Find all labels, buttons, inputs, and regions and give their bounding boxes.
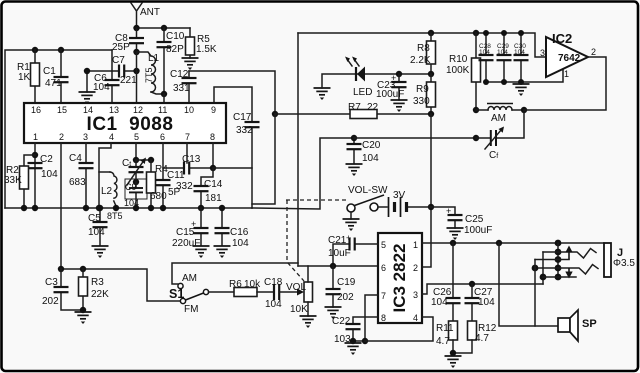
svg-text:10K: 10K <box>290 304 308 315</box>
svg-text:5: 5 <box>381 240 386 250</box>
jack node row252 <box>555 249 562 256</box>
svg-text:C9: C9 <box>125 182 137 192</box>
svg-text:C20: C20 <box>362 140 381 151</box>
svg-text:R10: R10 <box>449 54 468 65</box>
node C13 right <box>210 165 216 171</box>
svg-text:25P: 25P <box>112 42 130 53</box>
svg-text:VOL: VOL <box>286 282 306 293</box>
wire bus y208 <box>5 207 252 209</box>
node C1 top <box>58 47 64 53</box>
svg-text:3V: 3V <box>393 190 406 201</box>
svg-text:16: 16 <box>31 105 41 115</box>
capacitor C9 104 <box>124 182 143 208</box>
svg-text:11: 11 <box>158 105 167 115</box>
node pin7 bottom <box>362 338 368 344</box>
capacitor C30 104 <box>514 33 529 82</box>
node C9 bus <box>133 205 139 211</box>
resistor R10 100K <box>446 33 481 110</box>
node C22 bottom <box>350 338 356 344</box>
wire pin12 <box>136 52 138 103</box>
svg-text:100K: 100K <box>446 65 470 76</box>
node C4 bus <box>83 205 89 211</box>
svg-text:104: 104 <box>478 297 495 308</box>
IC3 2822 <box>378 233 422 323</box>
svg-text:202: 202 <box>337 292 354 303</box>
node C30 top <box>518 30 524 36</box>
capacitor C21 10uF <box>328 233 378 266</box>
svg-text:9: 9 <box>211 105 216 115</box>
svg-text:C18: C18 <box>264 277 283 288</box>
wire top rail y33 <box>298 33 546 57</box>
svg-text:R6: R6 <box>229 279 242 290</box>
ground C22 <box>345 343 362 355</box>
svg-text:L1: L1 <box>148 53 160 64</box>
wire pin3 route <box>422 284 543 294</box>
LED <box>345 57 372 99</box>
svg-text:22K: 22K <box>91 289 109 300</box>
capacitor C15 220uF <box>172 208 209 249</box>
node AM coil left <box>473 107 479 113</box>
svg-text:4.7: 4.7 <box>475 333 489 344</box>
capacitor C12 331 <box>170 69 197 103</box>
svg-text:FM: FM <box>184 304 198 315</box>
switch S1 AM/FM <box>169 273 209 315</box>
capacitor C19 202 <box>326 266 356 307</box>
svg-text:1K: 1K <box>18 72 31 83</box>
svg-text:C17: C17 <box>233 112 252 123</box>
svg-text:C13: C13 <box>182 154 201 165</box>
svg-text:2: 2 <box>413 263 418 273</box>
node C21/pin6 <box>330 263 336 269</box>
wire pin8 riser <box>212 143 214 168</box>
wire AM riser x298 <box>297 33 299 266</box>
svg-text:4: 4 <box>109 132 114 142</box>
svg-text:C25: C25 <box>465 214 484 225</box>
capacitor C6 104 <box>93 50 120 103</box>
switch VOL-SW <box>347 185 388 219</box>
svg-text:R9: R9 <box>416 84 429 95</box>
svg-text:471: 471 <box>45 78 62 89</box>
node Cf left <box>473 135 479 141</box>
ground C16 <box>214 246 231 258</box>
svg-text:4.7: 4.7 <box>436 336 450 347</box>
node C3/R3 gnd <box>80 307 86 313</box>
svg-text:C21: C21 <box>328 235 347 246</box>
node C14 bus <box>198 205 204 211</box>
svg-text:C4: C4 <box>69 153 82 164</box>
capacitor C17 332 <box>233 112 260 208</box>
svg-text:IC2: IC2 <box>552 31 572 46</box>
node C28 top <box>483 30 489 36</box>
svg-text:104: 104 <box>497 49 508 56</box>
wire pin6 to C13 <box>163 167 184 169</box>
svg-text:8: 8 <box>210 132 215 142</box>
svg-text:104: 104 <box>362 153 379 164</box>
wire pin4 riser <box>99 143 111 208</box>
svg-text:C7: C7 <box>112 55 125 66</box>
ground C20 <box>346 164 363 176</box>
svg-text:100uF: 100uF <box>464 225 492 236</box>
node C23 top <box>396 71 402 77</box>
svg-text:202: 202 <box>42 296 59 307</box>
resistor R12 4.7 <box>453 321 497 353</box>
node antenna <box>133 25 139 31</box>
resistor R9 330 <box>413 74 436 114</box>
svg-text:10uF: 10uF <box>328 248 351 259</box>
svg-text:10: 10 <box>184 105 194 115</box>
capacitor C2 104 <box>28 154 59 180</box>
ground C5 <box>92 246 109 258</box>
svg-text:C1: C1 <box>43 66 56 77</box>
resistor R3 22K <box>79 269 110 311</box>
svg-text:15: 15 <box>57 105 67 115</box>
wire pin1 rail y243 <box>422 242 604 244</box>
svg-text:22: 22 <box>367 102 379 113</box>
svg-text:5: 5 <box>134 132 139 142</box>
ground C3/R3 <box>75 312 92 324</box>
svg-text:R11: R11 <box>436 323 454 334</box>
svg-text:8: 8 <box>381 313 386 323</box>
ground R11 <box>445 356 462 368</box>
node R1 top <box>32 47 38 53</box>
wire pin9 AFC to C20 <box>252 114 275 204</box>
capacitor C11 5P <box>156 170 194 208</box>
wire jack col x543 <box>542 252 544 284</box>
wire jack column <box>557 243 559 277</box>
svg-text:181: 181 <box>205 193 222 204</box>
inductor AM coil <box>476 104 524 125</box>
wire cap bottom rail <box>486 69 563 82</box>
svg-text:C3: C3 <box>45 277 58 288</box>
node R8 top <box>428 30 434 36</box>
node C28 bottom <box>483 79 489 85</box>
capacitor C27 104 <box>465 284 496 321</box>
variable capacitor Cf <box>476 110 524 161</box>
node pin11 <box>161 91 167 97</box>
wire R7 rail <box>275 113 432 115</box>
node R10 top <box>473 30 479 36</box>
node pin4 bus <box>96 205 102 211</box>
capacitor C7 221 <box>112 55 137 86</box>
node C27 top <box>469 281 475 287</box>
wiper arrow into VOL <box>279 289 304 296</box>
svg-text:5P: 5P <box>168 187 181 198</box>
node C30 bottom <box>518 79 524 85</box>
wire pin9 to C17 <box>214 87 252 121</box>
jack node x543 row277 <box>540 274 547 281</box>
speaker SP <box>558 310 597 341</box>
trimmer box around C9 <box>125 179 147 199</box>
svg-text:SP: SP <box>582 318 597 330</box>
dashed mechanical link <box>286 200 347 281</box>
node C26 top <box>450 240 456 246</box>
svg-text:2: 2 <box>59 132 64 142</box>
capacitor C13 <box>182 154 213 175</box>
wire jack row259 <box>535 259 569 261</box>
ground C19 <box>325 307 342 319</box>
svg-text:+: + <box>346 233 351 243</box>
wire pin2 riser <box>60 143 62 269</box>
svg-text:AM: AM <box>491 113 506 124</box>
svg-text:IC3 2822: IC3 2822 <box>390 244 409 313</box>
svg-text:6: 6 <box>160 132 165 142</box>
svg-text:1.5K: 1.5K <box>196 44 217 55</box>
svg-text:82P: 82P <box>166 44 184 55</box>
capacitor C22 103 <box>332 316 378 345</box>
ground VOL <box>300 316 317 328</box>
resistor R1 1K <box>17 50 40 103</box>
node pin1/C2 <box>32 152 38 158</box>
wire pin6 rail <box>298 265 378 267</box>
svg-text:+: + <box>446 206 451 216</box>
svg-text:680: 680 <box>150 191 167 202</box>
wire pin7 riser <box>186 143 188 163</box>
svg-text:R3: R3 <box>91 277 104 288</box>
svg-text:104: 104 <box>41 169 58 180</box>
wire IC2 pin2 route <box>524 57 606 110</box>
svg-text:C14: C14 <box>204 179 223 190</box>
capacitor C8 25P <box>112 28 144 53</box>
svg-text:LED: LED <box>353 87 372 98</box>
svg-text:C12: C12 <box>170 69 189 80</box>
svg-text:R7: R7 <box>348 102 361 113</box>
resistor R7 22 <box>348 102 379 119</box>
capacitor C5 104 <box>88 208 108 245</box>
svg-text:33K: 33K <box>4 175 22 186</box>
node pin5 <box>133 157 139 163</box>
svg-text:104: 104 <box>265 299 282 310</box>
svg-text:332: 332 <box>236 125 253 136</box>
wire battery column <box>422 114 431 267</box>
svg-text:2.2K: 2.2K <box>410 55 431 66</box>
jack node main <box>555 240 562 247</box>
node pin1 bus <box>32 205 38 211</box>
svg-text:3: 3 <box>540 48 545 58</box>
svg-text:104: 104 <box>88 227 105 238</box>
capacitor C28 104 <box>479 33 494 82</box>
ground IC2 <box>513 84 530 96</box>
variable capacitor Ct <box>122 158 146 186</box>
node R9 bottom / R7 right <box>428 111 434 117</box>
node speaker riser top <box>496 240 502 246</box>
svg-text:C16: C16 <box>230 227 249 238</box>
resistor R11 4.7 <box>436 321 458 353</box>
svg-text:3: 3 <box>83 132 88 142</box>
wire speaker riser <box>499 243 558 326</box>
node C10 top <box>161 25 167 31</box>
wire pin5 riser <box>135 143 137 160</box>
svg-text:14: 14 <box>83 105 93 115</box>
wire C13 net to C17 column <box>213 167 252 169</box>
svg-text:Φ3.5: Φ3.5 <box>613 258 635 269</box>
svg-text:VOL-SW: VOL-SW <box>348 185 388 196</box>
svg-text:ANT: ANT <box>140 7 160 18</box>
inductor L1 7T5 <box>137 52 165 94</box>
capacitor C20 104 <box>347 138 381 164</box>
ground VOL-SW <box>343 219 360 231</box>
capacitor C3 202 <box>42 269 83 310</box>
wire jack row252 upper contact <box>543 249 596 259</box>
svg-text:R8: R8 <box>417 43 430 54</box>
resistor R5 1.5K <box>186 28 217 58</box>
svg-text:12: 12 <box>133 105 143 115</box>
svg-text:2: 2 <box>591 47 596 57</box>
svg-text:683: 683 <box>69 177 86 188</box>
svg-text:100uF: 100uF <box>376 89 404 100</box>
svg-text:3: 3 <box>413 290 418 300</box>
svg-text:7T5: 7T5 <box>144 67 154 83</box>
jack down arrow <box>565 268 572 279</box>
jack up arrow <box>565 246 572 260</box>
wire top rail y50 <box>5 50 112 208</box>
svg-text:104: 104 <box>93 82 110 93</box>
wire pin1 riser <box>34 143 36 208</box>
svg-text:10k: 10k <box>244 279 261 290</box>
node battery junction <box>428 204 434 210</box>
wire antenna rail y28 <box>137 27 191 29</box>
IC1 9088 <box>24 103 226 143</box>
capacitor C18 104 <box>257 277 283 310</box>
svg-text:C10: C10 <box>166 31 185 42</box>
wire C12 to R7 rail <box>189 71 275 114</box>
svg-text:8T5: 8T5 <box>107 211 123 221</box>
svg-text:C11: C11 <box>167 170 185 181</box>
ground C25 <box>447 228 464 240</box>
svg-text:C22: C22 <box>332 316 351 327</box>
wire C3/R3 rail <box>61 269 180 301</box>
capacitor C10 82P <box>157 28 185 94</box>
svg-text:C5: C5 <box>88 213 101 224</box>
node C29 bottom <box>501 79 507 85</box>
svg-text:AM: AM <box>182 273 197 284</box>
antenna ANT <box>131 3 160 28</box>
wire C17 bottom to C20 <box>252 138 354 209</box>
node C29 top <box>501 30 507 36</box>
wire S1 pole to R6 <box>209 291 235 293</box>
node R8/R9/LED <box>428 71 434 77</box>
jack node row277 <box>555 274 562 281</box>
capacitor C1 471 <box>43 50 69 103</box>
node Ct bottom <box>133 179 139 185</box>
wire AM contact riser <box>172 263 298 284</box>
node R2 bus <box>21 205 27 211</box>
potentiometer VOL 10K <box>286 266 313 316</box>
ground R5 <box>182 58 199 70</box>
svg-text:331: 331 <box>173 83 190 94</box>
wire pin6 riser <box>162 143 164 180</box>
svg-text:1: 1 <box>564 69 569 79</box>
inductor L2 8T5 <box>99 172 123 221</box>
jack node row268 <box>555 265 562 272</box>
svg-text:C19: C19 <box>337 277 356 288</box>
svg-text:4: 4 <box>413 313 418 323</box>
capacitor C29 104 <box>497 33 512 82</box>
node R3 top <box>80 266 86 272</box>
resistor R2 33K <box>4 155 35 208</box>
wire pin4 route <box>365 317 433 341</box>
svg-text:L2: L2 <box>101 186 113 197</box>
svg-text:104: 104 <box>479 49 490 56</box>
wire pin5 to R4 <box>136 159 151 161</box>
svg-text:C15: C15 <box>176 227 195 238</box>
capacitor C26 104 <box>431 243 461 321</box>
node pin2/C3 <box>58 266 64 272</box>
svg-text:6: 6 <box>381 263 386 273</box>
wire jack row277 <box>543 276 576 278</box>
svg-text:1: 1 <box>413 240 418 250</box>
resistor R4 680 <box>147 160 169 208</box>
svg-text:104: 104 <box>232 238 249 249</box>
wire LED row <box>322 74 432 88</box>
wire pin7 <box>353 295 378 341</box>
ground pin14 <box>79 92 96 104</box>
svg-text:220uF: 220uF <box>172 238 200 249</box>
node C20 <box>351 135 357 141</box>
node C7 right / pin12 <box>133 68 139 74</box>
node R11 bottom <box>450 350 456 356</box>
resistor R8 2.2K <box>410 33 436 74</box>
capacitor C23 100uF <box>376 73 407 100</box>
jack node row259 <box>555 256 562 263</box>
svg-text:330: 330 <box>413 96 430 107</box>
wire C20 rail to Cf <box>354 137 476 139</box>
ground C23 <box>391 100 408 112</box>
node C8 bottom / L1 top <box>133 49 139 55</box>
node C11 bus <box>160 205 166 211</box>
svg-text:13: 13 <box>109 105 119 115</box>
capacitor C16 104 <box>215 208 250 249</box>
capacitor C14 181 <box>194 168 223 208</box>
ground C15 <box>193 246 210 258</box>
node gnd branch <box>84 68 90 74</box>
svg-text:104: 104 <box>431 297 448 308</box>
node AM coil right <box>521 107 527 113</box>
battery 3V <box>378 190 431 217</box>
svg-text:C2: C2 <box>40 154 53 165</box>
resistor R6 10k <box>229 279 261 297</box>
node C5 bus <box>97 205 103 211</box>
jack J sleeve bar <box>604 243 635 277</box>
svg-text:221: 221 <box>120 75 137 86</box>
ground LED <box>314 88 331 100</box>
capacitor C4 683 <box>69 143 94 208</box>
svg-text:1: 1 <box>33 132 38 142</box>
wire jack col x535 to speaker <box>534 260 536 327</box>
svg-text:7642: 7642 <box>558 53 581 64</box>
svg-text:7: 7 <box>185 132 190 142</box>
node C16 bus <box>219 205 225 211</box>
node R4 bus <box>148 205 154 211</box>
jack node x535 row268 <box>532 265 539 272</box>
node R4 top <box>148 157 154 163</box>
svg-text:7: 7 <box>381 291 386 301</box>
wire gnd14 branch <box>87 71 112 92</box>
node R7 left <box>272 111 278 117</box>
node L2 bus <box>113 205 119 211</box>
op-amp IC2 7642 <box>540 31 596 79</box>
svg-text:104: 104 <box>514 49 525 56</box>
wire jack row268 lower contact <box>535 265 598 275</box>
wire pin11 <box>163 94 165 103</box>
capacitor C25 100uF <box>431 206 492 236</box>
